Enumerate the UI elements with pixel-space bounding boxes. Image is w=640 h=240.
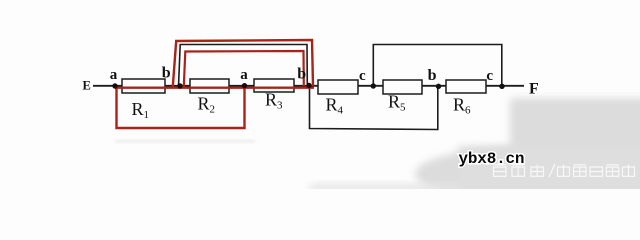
resistor R2	[190, 79, 229, 93]
node c1	[371, 83, 376, 88]
svg-text:F: F	[529, 81, 539, 98]
wire R4 to R5 through node c	[358, 85, 383, 87]
svg-text:a: a	[240, 67, 248, 83]
wire R1 to R2 through node b	[165, 85, 190, 87]
watermark CJK glyph blocks (white)	[494, 164, 635, 177]
CJK char 5	[574, 165, 587, 177]
watermark gray blob right	[510, 98, 640, 203]
resistor R1	[122, 79, 165, 93]
watermark gray blob lower	[415, 146, 640, 202]
wire black top loop b-b	[179, 45, 308, 87]
CJK slash	[549, 164, 555, 177]
CJK char 2	[512, 165, 525, 177]
faint scan streak under red loop	[115, 140, 255, 143]
wire black bottom loop b-b	[310, 86, 438, 130]
CJK char 7	[606, 165, 619, 177]
wire R6 to F through node c	[486, 85, 524, 87]
resistor R4	[318, 80, 358, 94]
svg-text:c: c	[486, 68, 493, 84]
wire E lead	[93, 85, 115, 87]
node a2	[242, 83, 247, 88]
resistor R3	[254, 79, 294, 92]
resistor R5	[383, 80, 422, 94]
svg-text:a: a	[110, 67, 118, 83]
wire black top loop c-c	[373, 45, 502, 87]
svg-text:c: c	[359, 68, 366, 84]
CJK char 6	[590, 167, 603, 176]
wire R2 to R3 through node a	[229, 85, 254, 87]
svg-text:E: E	[83, 79, 91, 93]
svg-text:b: b	[297, 66, 306, 83]
node b3	[436, 84, 441, 89]
red trace main horizontal a1 to b2	[115, 87, 314, 89]
red inner top loop b-b	[184, 51, 304, 87]
node b1	[177, 83, 182, 88]
resistor R6	[446, 80, 486, 93]
svg-text:b: b	[162, 64, 171, 81]
node a1	[112, 83, 117, 88]
CJK char 1	[494, 165, 507, 177]
wire R3 to R4 through node b	[294, 85, 318, 87]
CJK char 3	[531, 165, 544, 177]
svg-text:b: b	[428, 67, 437, 84]
node c2	[499, 84, 504, 89]
node b2	[306, 83, 311, 88]
gray bottom strip	[310, 184, 460, 192]
CJK char 4	[558, 165, 570, 177]
CJK char 8	[623, 165, 635, 177]
wire a1 to R1	[115, 85, 124, 87]
wire R5 to R6 through node b	[422, 85, 446, 87]
red bottom loop a-a	[117, 87, 245, 128]
red outer top loop b-b	[173, 40, 313, 87]
watermark gray blob mid	[458, 146, 640, 196]
